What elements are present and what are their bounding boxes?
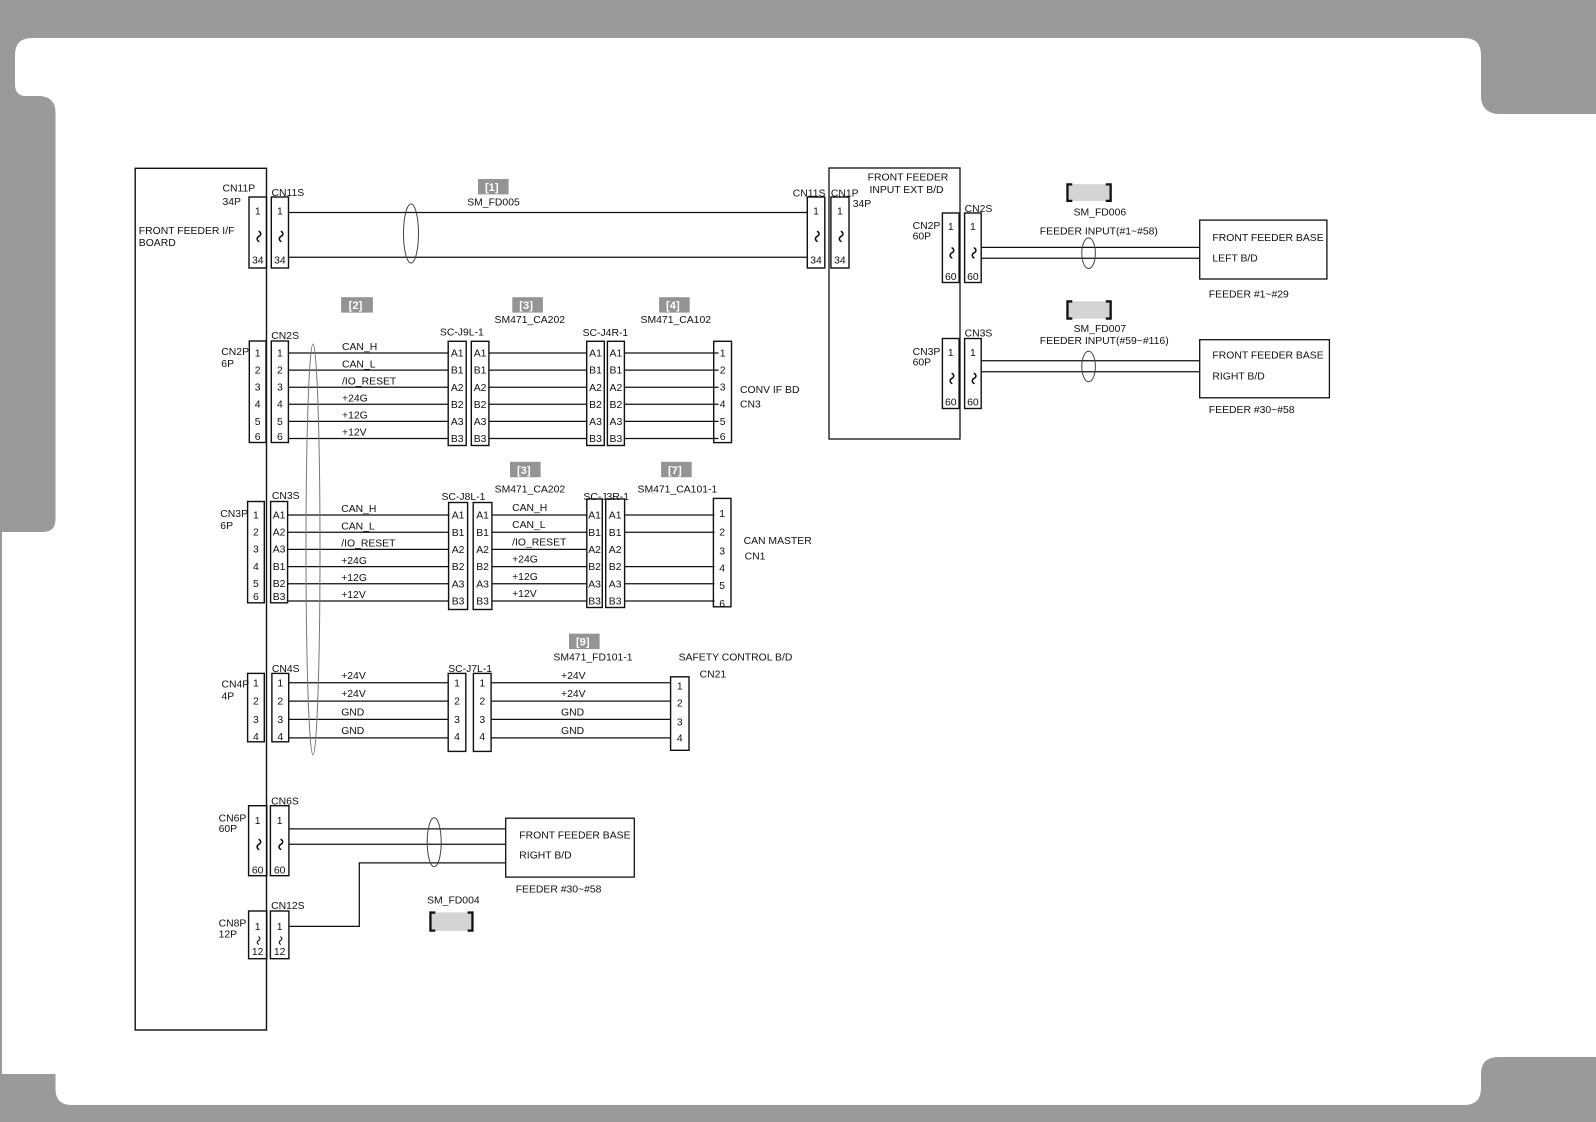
svg-text:+24V: +24V (341, 689, 366, 700)
svg-text:FRONT FEEDER: FRONT FEEDER (868, 173, 949, 184)
svg-text:1: 1 (970, 348, 976, 359)
svg-text:1: 1 (948, 222, 954, 233)
svg-text:/IO_RESET: /IO_RESET (341, 539, 396, 550)
svg-text:[3]: [3] (519, 300, 533, 312)
svg-text:CAN_H: CAN_H (341, 504, 376, 515)
svg-text:CN1: CN1 (745, 552, 766, 563)
svg-text:34: 34 (252, 256, 264, 267)
svg-text:B2: B2 (588, 562, 601, 573)
svg-text:FRONT FEEDER I/F: FRONT FEEDER I/F (139, 226, 235, 237)
svg-text:B2: B2 (451, 400, 464, 411)
svg-text:+12V: +12V (512, 589, 537, 600)
svg-text:CAN_L: CAN_L (341, 521, 375, 532)
svg-text:60: 60 (252, 865, 264, 876)
svg-text:1: 1 (813, 206, 819, 217)
svg-text:3: 3 (719, 546, 725, 557)
svg-text:/IO_RESET: /IO_RESET (342, 376, 397, 387)
svg-text:A2: A2 (273, 528, 286, 539)
svg-text:+12V: +12V (342, 428, 367, 439)
svg-text:A2: A2 (589, 383, 602, 394)
svg-text:2: 2 (277, 366, 283, 377)
svg-text:A1: A1 (476, 511, 489, 522)
svg-text:1: 1 (277, 922, 283, 933)
svg-text:A1: A1 (452, 511, 465, 522)
svg-text:12: 12 (274, 947, 286, 958)
svg-text:1: 1 (277, 206, 283, 217)
svg-text:1: 1 (253, 510, 259, 521)
svg-text:CAN_H: CAN_H (342, 342, 377, 353)
svg-text:34P: 34P (223, 197, 242, 208)
svg-text:SM_FD004: SM_FD004 (427, 895, 480, 906)
svg-text:5: 5 (253, 579, 259, 590)
svg-text:FEEDER #30~#58: FEEDER #30~#58 (516, 885, 602, 896)
svg-text:CAN_H: CAN_H (512, 503, 547, 514)
svg-text:4: 4 (253, 562, 259, 573)
svg-text:INPUT EXT B/D: INPUT EXT B/D (869, 185, 943, 196)
svg-text:2: 2 (253, 528, 259, 539)
svg-text:B2: B2 (476, 562, 489, 573)
svg-text:A2: A2 (452, 545, 465, 556)
svg-text:GND: GND (561, 707, 584, 718)
svg-text:2: 2 (479, 697, 485, 708)
svg-text:+24G: +24G (342, 394, 368, 405)
svg-text:3: 3 (253, 715, 259, 726)
svg-text:GND: GND (561, 726, 584, 737)
svg-text:CN2P: CN2P (913, 221, 941, 232)
svg-text:SC-J9L-1: SC-J9L-1 (440, 328, 484, 339)
svg-text:SM471_FD101-1: SM471_FD101-1 (553, 652, 632, 663)
svg-text:LEFT B/D: LEFT B/D (1212, 254, 1257, 265)
svg-text:2: 2 (253, 697, 259, 708)
svg-text:B2: B2 (589, 400, 602, 411)
svg-text:RIGHT B/D: RIGHT B/D (1212, 371, 1264, 382)
svg-text:B1: B1 (589, 366, 602, 377)
svg-text:SC-J8L-1: SC-J8L-1 (442, 492, 486, 503)
svg-text:+12V: +12V (341, 590, 366, 601)
svg-text:60P: 60P (219, 824, 238, 835)
svg-text:2: 2 (719, 527, 725, 538)
svg-text:CN8P: CN8P (219, 919, 247, 930)
svg-text:A3: A3 (610, 417, 623, 428)
svg-text:[7]: [7] (668, 465, 682, 477)
svg-text:+24G: +24G (341, 556, 367, 567)
svg-text:[4]: [4] (666, 300, 680, 312)
svg-text:6P: 6P (220, 521, 233, 532)
svg-text:A2: A2 (609, 545, 622, 556)
svg-text:CN6P: CN6P (219, 813, 247, 824)
svg-text:[9]: [9] (576, 637, 590, 649)
svg-text:GND: GND (341, 726, 364, 737)
svg-text:SM471_CA202: SM471_CA202 (495, 315, 566, 326)
svg-text:[3]: [3] (517, 465, 531, 477)
svg-text:B1: B1 (474, 366, 487, 377)
svg-text:3: 3 (277, 715, 283, 726)
svg-text:4: 4 (720, 400, 726, 411)
svg-text:4: 4 (277, 732, 283, 743)
svg-text:4: 4 (454, 732, 460, 743)
svg-text:FEEDER #1~#29: FEEDER #1~#29 (1209, 289, 1289, 300)
svg-text:4: 4 (479, 732, 485, 743)
svg-text:5: 5 (255, 417, 261, 428)
svg-text:FEEDER #30~#58: FEEDER #30~#58 (1209, 405, 1295, 416)
svg-text:5: 5 (720, 417, 726, 428)
svg-text:FRONT FEEDER BASE: FRONT FEEDER BASE (1212, 350, 1323, 361)
svg-text:6: 6 (255, 432, 261, 443)
svg-text:CN3S: CN3S (272, 491, 300, 502)
svg-text:B3: B3 (451, 434, 464, 445)
svg-text:A3: A3 (452, 579, 465, 590)
svg-text:12P: 12P (219, 930, 238, 941)
svg-text:3: 3 (720, 383, 726, 394)
svg-text:A1: A1 (589, 349, 602, 360)
svg-text:RIGHT B/D: RIGHT B/D (519, 851, 571, 862)
svg-text:6: 6 (720, 432, 726, 443)
svg-text:CN11S: CN11S (793, 189, 826, 200)
svg-text:60: 60 (945, 398, 957, 409)
svg-text:4P: 4P (222, 692, 235, 703)
svg-text:1: 1 (720, 348, 726, 359)
svg-text:A1: A1 (451, 349, 464, 360)
svg-text:12: 12 (252, 947, 264, 958)
svg-text:60: 60 (274, 865, 286, 876)
svg-text:SC-J4R-1: SC-J4R-1 (583, 328, 629, 339)
svg-text:SM471_CA102: SM471_CA102 (641, 315, 712, 326)
svg-text:CONV IF BD: CONV IF BD (740, 385, 799, 396)
svg-text:1: 1 (277, 348, 283, 359)
svg-text:SM_FD007: SM_FD007 (1074, 324, 1127, 335)
svg-text:+12G: +12G (341, 573, 367, 584)
svg-text:B3: B3 (452, 597, 465, 608)
svg-text:A3: A3 (474, 417, 487, 428)
svg-text:A1: A1 (273, 510, 286, 521)
svg-text:A3: A3 (273, 545, 286, 556)
svg-text:1: 1 (948, 348, 954, 359)
svg-text:3: 3 (479, 715, 485, 726)
svg-text:1: 1 (970, 222, 976, 233)
svg-text:A3: A3 (451, 417, 464, 428)
svg-text:60P: 60P (913, 358, 932, 369)
svg-text:SM_FD005: SM_FD005 (467, 198, 520, 209)
svg-text:2: 2 (454, 697, 460, 708)
svg-text:+12G: +12G (512, 572, 538, 583)
svg-text:34: 34 (810, 256, 822, 267)
svg-text:B3: B3 (588, 597, 601, 608)
svg-text:A3: A3 (588, 579, 601, 590)
svg-text:A2: A2 (474, 383, 487, 394)
svg-text:1: 1 (719, 509, 725, 520)
svg-text:+12G: +12G (342, 411, 368, 422)
svg-text:6: 6 (719, 599, 725, 610)
svg-text:2: 2 (255, 366, 261, 377)
svg-text:3: 3 (277, 383, 283, 394)
svg-text:CAN_L: CAN_L (342, 359, 376, 370)
svg-text:4: 4 (253, 732, 259, 743)
svg-text:A2: A2 (451, 383, 464, 394)
svg-text:A3: A3 (589, 417, 602, 428)
svg-text:+24V: +24V (341, 671, 366, 682)
svg-text:B2: B2 (474, 400, 487, 411)
svg-text:1: 1 (277, 816, 283, 827)
svg-text:B3: B3 (610, 434, 623, 445)
svg-text:CN2P: CN2P (221, 347, 249, 358)
svg-text:CN11P: CN11P (223, 184, 256, 195)
svg-text:5: 5 (277, 417, 283, 428)
svg-text:4: 4 (677, 734, 683, 745)
svg-text:1: 1 (454, 678, 460, 689)
svg-text:CN21: CN21 (700, 669, 727, 680)
svg-text:6: 6 (253, 592, 259, 603)
svg-text:+24V: +24V (561, 689, 586, 700)
svg-text:B3: B3 (609, 597, 622, 608)
svg-text:4: 4 (277, 400, 283, 411)
svg-text:[2]: [2] (349, 300, 363, 312)
svg-text:B3: B3 (589, 434, 602, 445)
svg-text:+24V: +24V (561, 671, 586, 682)
svg-text:B1: B1 (476, 528, 489, 539)
svg-text:SM471_CA101-1: SM471_CA101-1 (638, 485, 718, 496)
svg-text:B2: B2 (452, 562, 465, 573)
svg-text:3: 3 (677, 718, 683, 729)
svg-text:CN3P: CN3P (220, 509, 248, 520)
svg-text:60P: 60P (913, 232, 932, 243)
svg-text:34: 34 (274, 256, 286, 267)
svg-text:CAN_L: CAN_L (512, 520, 546, 531)
svg-text:B1: B1 (610, 366, 623, 377)
svg-text:A1: A1 (588, 511, 601, 522)
svg-text:3: 3 (255, 383, 261, 394)
svg-text:B3: B3 (273, 592, 286, 603)
svg-text:B1: B1 (452, 528, 465, 539)
svg-text:6: 6 (277, 432, 283, 443)
svg-text:SM471_CA202: SM471_CA202 (495, 485, 566, 496)
svg-text:A2: A2 (610, 383, 623, 394)
svg-text:60: 60 (945, 272, 957, 283)
svg-text:A1: A1 (609, 511, 622, 522)
svg-text:GND: GND (341, 707, 364, 718)
svg-text:1: 1 (255, 348, 261, 359)
svg-text:A2: A2 (476, 545, 489, 556)
svg-text:CN3: CN3 (740, 399, 761, 410)
svg-text:1: 1 (837, 206, 843, 217)
svg-text:FEEDER INPUT(#1~#58): FEEDER INPUT(#1~#58) (1040, 226, 1158, 237)
svg-text:CN3S: CN3S (965, 328, 993, 339)
svg-text:60: 60 (967, 398, 979, 409)
svg-text:FRONT FEEDER BASE: FRONT FEEDER BASE (519, 831, 630, 842)
svg-text:B1: B1 (273, 562, 286, 573)
svg-text:CN3P: CN3P (913, 347, 941, 358)
svg-text:1: 1 (253, 678, 259, 689)
svg-text:6P: 6P (221, 359, 234, 370)
svg-text:A1: A1 (610, 349, 623, 360)
svg-text:1: 1 (255, 206, 261, 217)
svg-text:A1: A1 (474, 349, 487, 360)
svg-text:3: 3 (253, 545, 259, 556)
svg-text:[1]: [1] (485, 182, 499, 194)
svg-text:1: 1 (479, 678, 485, 689)
svg-text:CN4P: CN4P (222, 680, 250, 691)
svg-text:34: 34 (834, 256, 846, 267)
svg-text:B2: B2 (610, 400, 623, 411)
svg-text:A2: A2 (588, 545, 601, 556)
svg-text:4: 4 (719, 563, 725, 574)
svg-text:3: 3 (454, 715, 460, 726)
svg-text:4: 4 (255, 400, 261, 411)
svg-text:FEEDER INPUT(#59~#116): FEEDER INPUT(#59~#116) (1040, 336, 1169, 347)
svg-text:B3: B3 (476, 597, 489, 608)
svg-text:1: 1 (255, 922, 261, 933)
svg-text:34P: 34P (853, 199, 872, 210)
svg-text:60: 60 (967, 272, 979, 283)
svg-text:BOARD: BOARD (139, 238, 176, 249)
svg-text:5: 5 (719, 581, 725, 592)
svg-text:CAN MASTER: CAN MASTER (744, 536, 813, 547)
svg-text:2: 2 (277, 697, 283, 708)
svg-text:2: 2 (720, 366, 726, 377)
svg-text:B2: B2 (273, 579, 286, 590)
svg-text:1: 1 (277, 678, 283, 689)
svg-text:1: 1 (677, 682, 683, 693)
svg-text:2: 2 (677, 699, 683, 710)
svg-text:A3: A3 (609, 579, 622, 590)
svg-text:/IO_RESET: /IO_RESET (512, 537, 567, 548)
svg-text:B2: B2 (609, 562, 622, 573)
svg-text:B3: B3 (474, 434, 487, 445)
svg-text:FRONT FEEDER BASE: FRONT FEEDER BASE (1212, 233, 1323, 244)
svg-text:B1: B1 (609, 528, 622, 539)
svg-text:1: 1 (255, 816, 261, 827)
svg-text:A3: A3 (476, 579, 489, 590)
svg-text:SAFETY CONTROL B/D: SAFETY CONTROL B/D (679, 653, 793, 664)
svg-text:B1: B1 (588, 528, 601, 539)
svg-text:+24G: +24G (512, 555, 538, 566)
svg-text:B1: B1 (451, 366, 464, 377)
svg-text:CN1P: CN1P (831, 189, 859, 200)
svg-text:SM_FD006: SM_FD006 (1074, 208, 1127, 219)
